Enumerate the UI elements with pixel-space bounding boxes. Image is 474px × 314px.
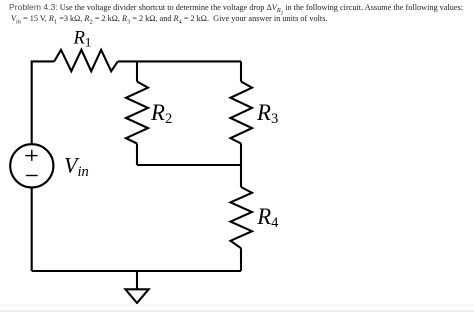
ground symbol triangle	[125, 289, 148, 303]
problem statement line 2	[11, 14, 327, 23]
minus sign of source	[26, 175, 38, 177]
ground stem	[136, 271, 138, 289]
resistor R1	[54, 50, 118, 71]
problem statement line 1	[9, 2, 463, 15]
wire: junction down to R4	[240, 165, 242, 187]
svg-text:R4: R4	[256, 204, 279, 231]
plus sign of source	[25, 150, 37, 161]
wire: middle horizontal between R2 and R3 bottoms	[137, 164, 241, 166]
svg-text:R1: R1	[73, 27, 92, 49]
wire: R3 top stub	[240, 61, 242, 81]
svg-text:Vin: Vin	[64, 152, 89, 179]
resistor R4	[231, 187, 253, 248]
voltage source Vin circle	[10, 144, 53, 187]
wire: R3 bottom stub	[240, 144, 242, 166]
svg-text:R2: R2	[150, 100, 172, 127]
resistor R3	[231, 82, 253, 144]
wire: bottom horizontal	[32, 270, 241, 272]
svg-text:R3: R3	[256, 100, 278, 127]
wire: left vertical from source top up to top-left corner, then right to R1	[32, 61, 55, 144]
wire: R4 bottom stub	[240, 248, 242, 271]
wire: R2 bottom stub	[136, 144, 138, 166]
wire: R2 branch stub from top wire junction	[136, 61, 138, 81]
bottom divider lines	[0, 304, 474, 306]
wire: top horizontal from R1 to R3 branch corner	[118, 60, 241, 62]
wire: source bottom stub	[31, 187, 33, 271]
resistor R2	[126, 82, 148, 144]
